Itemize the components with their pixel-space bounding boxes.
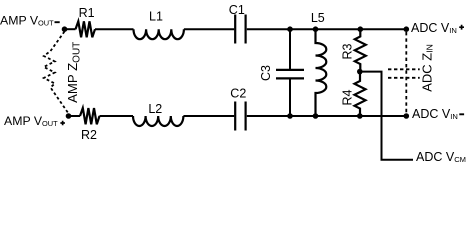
node AMP VOUT- — [62, 26, 68, 32]
svg-text:L1: L1 — [149, 10, 163, 24]
svg-text:C2: C2 — [230, 87, 246, 101]
node C3 bottom — [287, 113, 293, 119]
node ADC VIN- — [404, 113, 410, 119]
sign plus ADC VIN+ — [459, 25, 464, 30]
wire C2 to ADC VIN- node — [247, 115, 406, 117]
resistor R2 — [80, 108, 100, 124]
node L5 bottom — [313, 113, 319, 119]
svg-text:L2: L2 — [148, 102, 162, 116]
inductor L2 — [133, 116, 183, 126]
node L5 top — [313, 26, 319, 32]
capacitor C2 — [235, 102, 245, 131]
node R4 bottom — [357, 113, 363, 119]
node R3 R4 junction — [357, 69, 363, 75]
inductor L1 — [134, 29, 184, 39]
dashed ADC ZIN capacitor plates — [388, 69, 420, 78]
svg-text:C1: C1 — [229, 3, 245, 17]
svg-text:C3: C3 — [259, 65, 273, 81]
svg-text:R1: R1 — [79, 6, 95, 20]
wire R2 to L2 — [100, 115, 134, 117]
resistor R4 — [355, 72, 366, 116]
svg-text:L5: L5 — [311, 11, 325, 25]
node C3 top — [287, 26, 293, 32]
inductor L5 — [316, 29, 327, 116]
dashed impedance AMP ZOUT — [44, 32, 69, 114]
resistor R3 — [355, 29, 366, 71]
wire R1 to L1 — [95, 28, 134, 30]
svg-text:R4: R4 — [341, 89, 355, 105]
sign plus AMP VOUT+ — [60, 121, 65, 126]
wire bottom rail: node to R2 — [69, 115, 81, 117]
node R3 top — [358, 26, 364, 32]
resistor R1 — [76, 21, 96, 37]
svg-text:R2: R2 — [81, 128, 97, 142]
wire top rail: node to R1 — [65, 28, 76, 30]
sign minus ADC VIN- — [459, 113, 464, 115]
wire L1 to C1 — [184, 28, 234, 30]
capacitor C3 plates — [276, 70, 304, 79]
dashed impedance ADC ZIN vertical — [405, 32, 407, 113]
sign minus AMP VOUT- — [55, 21, 60, 23]
wire junction to ADC VCM — [360, 72, 413, 160]
capacitor C1 — [235, 15, 245, 44]
node AMP VOUT+ — [66, 113, 72, 119]
wire L2 to C2 — [183, 115, 234, 117]
node ADC VIN+ — [404, 26, 410, 32]
svg-text:R3: R3 — [341, 43, 355, 59]
capacitor C3 top stem — [289, 29, 291, 69]
wire C1 to ADC VIN+ node — [247, 28, 406, 30]
capacitor C3 bottom stem — [289, 79, 291, 116]
